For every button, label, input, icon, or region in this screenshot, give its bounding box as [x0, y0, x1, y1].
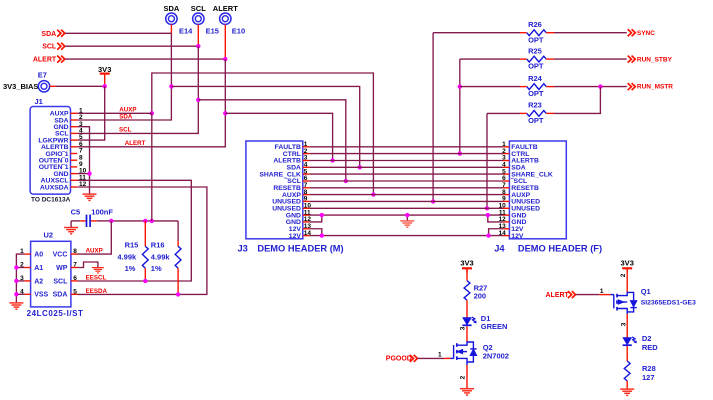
ground below J1 [83, 194, 97, 200]
junction SCL/E15 [196, 44, 200, 48]
svg-text:12V: 12V [289, 233, 302, 240]
lead Q1 source to 3V3 [626, 268, 628, 292]
J3 pin 12 GND [286, 216, 312, 226]
junction ALERT/E10 [223, 57, 227, 61]
J4 pin 14 12V [499, 230, 524, 240]
svg-text:2N7002: 2N7002 [483, 351, 509, 360]
junction 12V left [320, 233, 324, 237]
J3 pin 4 SDA [287, 161, 310, 171]
connector J3 body [246, 141, 303, 239]
svg-text:GREEN: GREEN [481, 322, 508, 331]
svg-text:J4: J4 [494, 243, 505, 253]
off-page connector SYNC [628, 29, 636, 36]
lead R24 left [520, 86, 527, 88]
lead R26 right [546, 32, 554, 34]
svg-text:24LC025-I/ST: 24LC025-I/ST [27, 309, 84, 318]
wire U2 WP to ground [78, 262, 98, 268]
svg-text:OPT: OPT [528, 89, 544, 98]
svg-text:VSS: VSS [34, 292, 48, 299]
wire C5 left [71, 220, 80, 222]
junction AUXP at header pin 8 [371, 192, 375, 196]
J3 pin 14 12V [289, 230, 312, 240]
svg-text:4.99k: 4.99k [151, 253, 171, 262]
wire header row 8 [309, 194, 503, 196]
J4 pin 11 GND [499, 209, 527, 219]
svg-text:100nF: 100nF [91, 208, 113, 217]
LED D1 [462, 317, 476, 325]
lead R16 top [177, 241, 179, 246]
pin stub E7 [50, 85, 56, 87]
J3 pin 5 SHARE_CLK [259, 168, 309, 178]
junction GND right [486, 213, 490, 217]
U2 pin 6 SCL [53, 275, 77, 285]
svg-text:3V3: 3V3 [460, 259, 473, 268]
svg-text:SCL: SCL [42, 44, 57, 51]
svg-text:2: 2 [620, 273, 627, 277]
J4 pin 4 SDA [502, 161, 526, 171]
test point E14 [166, 13, 177, 24]
J3 pin 7 RESETB [273, 182, 309, 192]
svg-text:AUXP: AUXP [86, 248, 103, 255]
junction GND left [320, 213, 324, 217]
wire header row 2 [309, 153, 503, 155]
svg-text:R16: R16 [151, 240, 165, 249]
svg-text:3V3_BIAS: 3V3_BIAS [3, 82, 38, 91]
svg-text:DEMO HEADER (F): DEMO HEADER (F) [518, 243, 602, 253]
wire SDA to header pin 4 [171, 86, 359, 167]
wire ALERT vertical to J1 pin 6 [77, 59, 225, 147]
J4 pin 9 UNUSED [502, 196, 540, 206]
power stub 3V3 [104, 78, 106, 87]
wire header row 10 [309, 207, 503, 209]
svg-text:EESDA: EESDA [86, 288, 108, 295]
J4 pin 12 GND [499, 216, 527, 226]
ground Q2 [460, 389, 474, 395]
junction header ground [405, 213, 409, 217]
svg-text:E7: E7 [38, 71, 47, 80]
svg-text:PGOOD: PGOOD [386, 356, 412, 363]
J1 pin 9 OUTEN‾1 [39, 161, 83, 171]
J3 pin 9 UNUSED [272, 196, 309, 206]
svg-text:R26: R26 [528, 20, 542, 29]
wire R26 to SYNC [554, 32, 627, 34]
wire AUXP rail [111, 220, 178, 222]
svg-text:RUN_MSTR: RUN_MSTR [637, 83, 673, 90]
wire U2 pin 4 to bus [16, 293, 24, 295]
off-page connector RUN_MSTR [628, 83, 636, 90]
svg-text:VCC: VCC [53, 252, 68, 259]
resistor R26 [527, 30, 546, 36]
resistor R25 [527, 56, 546, 62]
svg-text:R24: R24 [528, 74, 543, 83]
lead R28 bottom [626, 381, 628, 389]
ground at WP [92, 268, 104, 273]
svg-text:WP: WP [56, 265, 68, 272]
wire J3 pin12 jog to GND [309, 215, 321, 222]
svg-text:R23: R23 [528, 101, 542, 110]
J1 pin 6 ALERTB [41, 141, 83, 151]
svg-text:SDA: SDA [163, 4, 179, 13]
svg-text:ALERT: ALERT [33, 57, 57, 64]
svg-text:RUN_STBY: RUN_STBY [637, 57, 673, 64]
test point E15 [193, 13, 204, 24]
svg-text:OPT: OPT [528, 62, 544, 71]
ground at C5 [64, 228, 78, 234]
svg-text:8: 8 [73, 248, 77, 255]
connector J1 body [30, 107, 70, 195]
svg-text:SCL: SCL [119, 126, 132, 133]
lead Q1 gate [599, 294, 610, 296]
svg-text:‾SCL: ‾SCL [510, 177, 527, 185]
wire J4 pin12 jog to GND [488, 215, 503, 222]
U2 pin 3 A2 [20, 275, 43, 285]
wire EESDA J1 pin12 to U2 pin5 [77, 187, 207, 294]
3V3 power symbol (bias) [100, 74, 110, 79]
wire SCL to header pin 6 [198, 100, 345, 181]
off-page connector SDA [57, 30, 65, 37]
wire header row 7 [309, 187, 503, 189]
svg-text:AUXSDA: AUXSDA [40, 184, 69, 191]
U2 pin 4 VSS [20, 288, 48, 298]
J1 pin 4 SCL [55, 128, 83, 138]
svg-text:2: 2 [460, 375, 467, 379]
wire header row 11 [309, 214, 503, 216]
svg-text:127: 127 [642, 373, 655, 382]
resistor R23 [527, 111, 546, 117]
J3 pin 8 AUXP [282, 189, 309, 199]
J1 pin 11 AUXSCL [41, 174, 87, 184]
svg-text:SDA: SDA [119, 113, 133, 120]
wire header row 5 [309, 173, 503, 175]
svg-text:SYNC: SYNC [637, 30, 655, 37]
lead R16 bottom [177, 268, 179, 294]
svg-text:E14: E14 [179, 27, 193, 36]
svg-text:C5: C5 [71, 208, 81, 217]
J4 pin 10 UNUSED [499, 202, 541, 212]
lead R15 top [144, 221, 146, 246]
wire to R23 [487, 112, 520, 114]
3V3 power symbol (Q1) [622, 268, 632, 273]
off-page connector ALERT Q1 [568, 291, 576, 298]
wire to R24 [460, 86, 520, 88]
svg-text:4.99k: 4.99k [117, 253, 137, 262]
off-page connector ALERT [57, 56, 65, 63]
ground U2 address pins [9, 303, 23, 309]
wire J1 pin10 GND [77, 173, 89, 175]
wire to R26 [433, 32, 520, 34]
wire EESCL J1 pin11 to U2 pin6 [77, 180, 191, 281]
svg-text:TO DC1613A: TO DC1613A [31, 197, 71, 204]
svg-text:1: 1 [438, 351, 442, 358]
svg-text:ALERT: ALERT [546, 292, 570, 299]
junction 12V right [486, 233, 490, 237]
resistor R28 [624, 361, 630, 381]
junction SDA at header pin 4 [358, 165, 362, 169]
resistor R16 [175, 246, 181, 268]
junction AUXP at J1 pin 1 [150, 111, 154, 115]
wire header row 14 [309, 235, 503, 237]
pin stub E10 [224, 24, 226, 59]
wire C5 right [97, 220, 112, 222]
J3 pin 13 12V [289, 223, 312, 233]
U2 pin 2 A1 [20, 262, 43, 272]
junction R26/header pin 9 [431, 199, 435, 203]
wire PGOOD to Q2 gate [418, 357, 444, 359]
lead R24 right [546, 86, 554, 88]
svg-text:3V3: 3V3 [621, 259, 634, 268]
J1 pin 3 GND [53, 121, 83, 131]
J4 pin 7 RESETB [502, 182, 539, 192]
svg-text:3: 3 [460, 326, 467, 330]
J1 pin 7 GPIO‾1 [46, 148, 83, 158]
wire ALERT to E10 [65, 58, 225, 60]
wire SDA vertical to J1 pin 2 [77, 33, 171, 120]
J3 pin 1 FAULTB [275, 141, 310, 151]
lead D2 to R28 [626, 346, 628, 361]
svg-text:R15: R15 [125, 240, 139, 249]
lead Q1 drain to D2 [626, 314, 628, 338]
IC U2 body [31, 241, 71, 307]
wire AUXP vertical [151, 113, 153, 221]
J1 pin 2 SDA [54, 114, 83, 124]
wire R25 to RUN_STBY [554, 58, 627, 60]
junction ALERT column [223, 111, 227, 115]
wire U2 address pins bus [16, 254, 24, 302]
lead R27 to D1 [466, 300, 468, 318]
J1 pin 10 GND [53, 168, 86, 178]
J3 pin 6 ‾SCL [284, 175, 309, 185]
connector J4 body [509, 141, 566, 239]
J4 pin 2 CTRL [502, 148, 529, 158]
svg-text:SCL: SCL [191, 4, 206, 13]
J4 pin 3 ALERTB [502, 155, 539, 165]
J3 pin 11 GND [286, 209, 311, 219]
J3 pin 10 UNUSED [272, 202, 311, 212]
lead R23 left [520, 112, 527, 114]
transistor Q1 [610, 292, 636, 314]
wire 3V3_BIAS to J1 pin 5 [77, 86, 105, 140]
test point E10 [220, 13, 231, 24]
svg-text:3V3: 3V3 [98, 65, 111, 74]
wire E7 to 3V3 junction [56, 85, 105, 87]
capacitor C5 [87, 215, 91, 227]
lead R27 top [466, 268, 468, 280]
lead R23 right [546, 112, 554, 114]
wire SDA to E14 [65, 32, 171, 34]
junction SCL at header pin 6 [344, 179, 348, 183]
junction R25/R24 left [458, 84, 462, 88]
svg-text:DEMO HEADER (M): DEMO HEADER (M) [257, 243, 343, 253]
J4 pin 6 ‾SCL [502, 175, 527, 185]
junction AUXP column at rail [150, 219, 154, 223]
svg-text:ALERT: ALERT [213, 4, 238, 13]
J1 pin 12 AUXSDA [40, 181, 87, 191]
svg-text:3: 3 [620, 322, 627, 326]
J4 pin 5 SHARE_CLK [502, 168, 553, 178]
svg-text:R25: R25 [528, 46, 542, 55]
svg-text:EESCL: EESCL [86, 275, 107, 282]
J1 pin 8 OUTEN‾0 [39, 154, 83, 164]
ground header middle [400, 221, 414, 227]
junction GND J1 [87, 171, 91, 175]
wire header row 4 [309, 166, 503, 168]
wire J1 pin1 AUXP [77, 112, 152, 114]
ground stem C5 [70, 221, 72, 227]
lead R25 right [546, 58, 554, 60]
svg-text:R28: R28 [642, 364, 656, 373]
junction U2 bus pin 4 [14, 292, 18, 296]
wire R16 top [177, 221, 179, 241]
svg-text:J3: J3 [238, 243, 248, 253]
svg-text:ALERT: ALERT [125, 140, 146, 147]
svg-text:Q1: Q1 [641, 287, 651, 296]
lead C5 left [80, 220, 86, 222]
junction R23/header pin 10 [485, 206, 489, 210]
resistor R27 [464, 281, 470, 301]
junction U2 bus pin 2 [14, 265, 18, 269]
junction ALERT at header pin 3 [330, 158, 334, 162]
wire R26 left to header pin 9 [432, 33, 434, 202]
wire SCL to E15 [65, 45, 198, 47]
lead Q2 gate [444, 357, 450, 359]
junction 3V3_BIAS [103, 84, 107, 88]
junction R15 top [143, 219, 147, 223]
resistor R15 [142, 246, 148, 268]
svg-text:SCL: SCL [53, 278, 68, 285]
lead R26 left [520, 32, 527, 34]
wire R23 right to R24 net [554, 87, 600, 114]
J1 pin 1 AUXP [50, 107, 83, 117]
wire ALERT to Q1 gate [576, 294, 600, 296]
ground Q1 circuit [620, 389, 634, 395]
wire rail to U2 pin 8 [78, 221, 112, 254]
J4 pin 13 12V [499, 223, 524, 233]
svg-text:200: 200 [474, 292, 487, 301]
junction SCL column [196, 98, 200, 102]
pin stub E15 [197, 24, 199, 46]
junction C5/VCC [109, 219, 113, 223]
wire R24 to RUN_MSTR [554, 86, 627, 88]
svg-text:OPT: OPT [528, 116, 544, 125]
svg-text:5: 5 [73, 288, 77, 295]
J1 pin 5 LGKPWR [38, 134, 83, 144]
J3 pin 3 ALERTB [273, 155, 309, 165]
wire AUXP to J3/J4 pin 8 [152, 73, 374, 195]
wire header row 1 [309, 146, 503, 148]
test point E7 [38, 81, 49, 92]
lead R15 bottom [144, 268, 146, 281]
junction R16/EESDA [176, 292, 180, 296]
svg-text:7: 7 [73, 262, 77, 269]
wire ALERT to header pin 3 [225, 113, 332, 160]
wire J1 pin3 GND down [77, 127, 89, 194]
svg-text:A1: A1 [34, 265, 43, 272]
J4 pin 1 FAULTB [502, 141, 538, 151]
U2 pin 7 WP [56, 262, 77, 272]
wire SCL vertical to J1 pin 4 [77, 46, 198, 133]
svg-text:E10: E10 [232, 27, 245, 36]
lead C5 right [91, 220, 97, 222]
svg-text:SDA: SDA [53, 292, 68, 299]
LED D2 [623, 337, 637, 345]
resistor R24 [527, 84, 546, 90]
wire J4 pin13 jog [489, 229, 503, 236]
svg-text:A0: A0 [34, 252, 43, 259]
lead D1 to Q2 drain [466, 326, 468, 342]
U2 pin 5 SDA [53, 288, 78, 298]
wire R23 left to header pin 10 [486, 113, 488, 208]
wire header row 9 [309, 200, 503, 202]
svg-text:U2: U2 [44, 230, 54, 239]
off-page connector SCL [57, 43, 65, 50]
off-page connector RUN_STBY [628, 56, 636, 63]
junction SDA column [169, 84, 173, 88]
svg-text:‾SCL: ‾SCL [284, 177, 301, 185]
wire U2 pin 3 to bus [16, 280, 24, 282]
svg-text:A2: A2 [34, 278, 43, 285]
svg-text:1: 1 [600, 288, 604, 295]
junction R15/EESCL [143, 279, 147, 283]
junction R24/R23 right [598, 84, 602, 88]
U2 pin 8 VCC [53, 248, 78, 258]
svg-text:SDA: SDA [41, 31, 56, 38]
svg-text:E15: E15 [206, 27, 219, 36]
wire U2 pin 2 to bus [16, 267, 24, 269]
wire R25 left to header pin 2 [459, 59, 461, 154]
svg-text:SI2365EDS1-GE3: SI2365EDS1-GE3 [641, 299, 696, 306]
svg-text:6: 6 [73, 275, 77, 282]
J4 pin 8 AUXP [502, 189, 530, 199]
junction R25/header pin 2 [458, 151, 462, 155]
svg-text:12V: 12V [511, 233, 524, 240]
svg-text:RED: RED [642, 343, 658, 352]
transistor Q2 [450, 342, 476, 365]
wire to R25 [460, 58, 520, 60]
3V3 power symbol (Q2) [462, 268, 472, 273]
wire header row 6 [309, 180, 503, 182]
lead Q2 source [466, 365, 468, 389]
off-page connector PGOOD [410, 355, 418, 362]
lead R25 left [520, 58, 527, 60]
ground stem header [406, 215, 408, 221]
wire J3 pin13 jog [309, 229, 321, 236]
pin stub E14 [170, 24, 172, 33]
svg-text:1%: 1% [151, 264, 162, 273]
svg-text:D2: D2 [642, 334, 652, 343]
junction U2 bus pin 3 [14, 279, 18, 283]
U2 pin 1 A0 [20, 248, 43, 258]
svg-text:1%: 1% [125, 264, 136, 273]
svg-text:OPT: OPT [528, 35, 544, 44]
J3 pin 2 CTRL [283, 148, 310, 158]
svg-text:J1: J1 [35, 97, 43, 106]
wire header row 3 [309, 160, 503, 162]
